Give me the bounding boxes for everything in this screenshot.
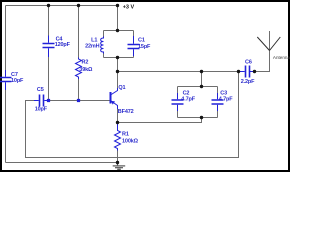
antenna bbox=[257, 37, 280, 51]
node R2/top rail bbox=[77, 4, 80, 7]
node tank bottom bbox=[116, 56, 119, 59]
capacitor C5 bbox=[34, 95, 49, 107]
node emitter junction bbox=[116, 121, 119, 124]
transistor Q1 bbox=[111, 88, 118, 109]
inductor L1 bbox=[101, 37, 104, 54]
node ground junction bbox=[116, 161, 119, 164]
wire left vertical (C7 to ground rail) bbox=[5, 90, 7, 163]
svg-text:4.7pF: 4.7pF bbox=[219, 96, 233, 102]
capacitor C6 bbox=[239, 66, 255, 78]
svg-text:10pF: 10pF bbox=[11, 78, 24, 84]
wire C2 branch bbox=[177, 87, 179, 118]
capacitor C1 bbox=[128, 36, 140, 56]
wire tank left branch bbox=[103, 31, 105, 58]
node R2 base junction bbox=[77, 99, 80, 102]
wire C3 branch bbox=[217, 87, 219, 118]
wire left vertical (top rail to C7) bbox=[5, 6, 7, 71]
svg-text:R2: R2 bbox=[82, 60, 89, 66]
svg-text:4.7pF: 4.7pF bbox=[181, 96, 195, 102]
wire tank bottom bbox=[104, 57, 134, 59]
node C6 left bbox=[237, 70, 240, 73]
wire main node rail bbox=[118, 71, 239, 73]
svg-text:BF472: BF472 bbox=[118, 109, 134, 115]
svg-text:C6: C6 bbox=[245, 59, 252, 65]
wire emitter to divider bbox=[118, 118, 202, 123]
capacitor C7 bbox=[0, 70, 12, 90]
svg-text:R1: R1 bbox=[122, 132, 129, 138]
wire R1 column lower bbox=[117, 151, 119, 163]
capacitor C4 bbox=[43, 36, 55, 58]
svg-text:100kΩ: 100kΩ bbox=[122, 138, 139, 144]
wire divider stub bbox=[201, 72, 203, 87]
node divider box top bbox=[200, 85, 203, 88]
svg-text:39kΩ: 39kΩ bbox=[79, 67, 93, 73]
wire +3V stub bbox=[117, 6, 119, 31]
wire feedback loop (node to C5) bbox=[26, 72, 239, 158]
wire tank top bbox=[104, 30, 134, 32]
node C6 right bbox=[253, 70, 256, 73]
wire antenna feed bbox=[255, 31, 270, 72]
svg-text:C5: C5 bbox=[37, 87, 44, 93]
svg-text:L1: L1 bbox=[91, 38, 97, 44]
svg-text:Q1: Q1 bbox=[118, 85, 125, 91]
wire base line bbox=[49, 100, 110, 102]
node C4/top rail bbox=[47, 4, 50, 7]
svg-text:22mH: 22mH bbox=[85, 44, 100, 50]
ground bbox=[113, 163, 126, 170]
capacitor C2 bbox=[172, 93, 184, 111]
border frame (decorative) bbox=[0, 0, 290, 2]
node divider box bottom bbox=[200, 116, 203, 119]
node divider stub top bbox=[200, 70, 203, 73]
svg-text:Antenna: Antenna bbox=[273, 55, 290, 60]
svg-text:10pF: 10pF bbox=[35, 107, 48, 113]
svg-text:+3 V: +3 V bbox=[123, 5, 135, 11]
wire top supply rail bbox=[6, 5, 118, 7]
resistor R1 bbox=[115, 123, 121, 151]
svg-text:15pF: 15pF bbox=[138, 44, 151, 50]
wire R2 column upper bbox=[78, 6, 80, 58]
wire ground rail bbox=[6, 162, 118, 164]
node +3V bbox=[116, 4, 119, 7]
node tank top bbox=[116, 29, 119, 32]
resistor R2 bbox=[76, 58, 82, 80]
node collector/main rail bbox=[116, 70, 119, 73]
svg-text:120pF: 120pF bbox=[55, 42, 71, 48]
svg-text:2.2pF: 2.2pF bbox=[241, 79, 255, 85]
wire collector column bbox=[117, 58, 119, 89]
wire divider box top bbox=[178, 86, 218, 88]
wire divider box bottom bbox=[178, 117, 218, 119]
wire R2 column lower bbox=[78, 79, 80, 101]
wire tank right branch bbox=[133, 31, 135, 58]
wire C4 column upper bbox=[48, 6, 50, 36]
svg-text:C1: C1 bbox=[138, 37, 145, 43]
wire emitter column bbox=[117, 109, 119, 123]
node C5/C4 base junction bbox=[47, 99, 50, 102]
capacitor C3 bbox=[212, 93, 224, 111]
wire C4 column lower bbox=[48, 57, 50, 101]
